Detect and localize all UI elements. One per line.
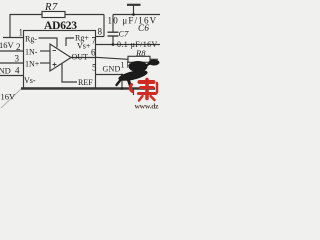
ground (top) stub (133, 5, 135, 15)
capacitor C7 plates (108, 31, 119, 33)
wire: pin 7 Vs+ rail (96, 44, 161, 46)
wire: pin 1 (3, 37, 24, 39)
node: pin5/bottom rail junction (121, 87, 124, 90)
svg-text:R8: R8 (135, 48, 146, 58)
svg-text:4: 4 (15, 66, 20, 76)
node: ground stub on rail (132, 13, 135, 16)
wire: diagonal lead bottom-left (1, 89, 21, 108)
wire: internal Rg- stub (39, 38, 58, 48)
svg-text:GND: GND (103, 65, 121, 74)
svg-text:C7: C7 (119, 29, 130, 39)
svg-text:1N+: 1N+ (25, 60, 40, 69)
svg-text:3: 3 (15, 54, 20, 64)
svg-text:ND: ND (0, 66, 11, 76)
wire: internal Rg+ stub (66, 38, 74, 46)
watermark black brush swoosh (117, 60, 160, 87)
wire: R8 right lead (150, 58, 158, 60)
svg-text:8: 8 (98, 27, 103, 37)
capacitor C7 top lead (112, 15, 114, 32)
wire: pin 5 to ground (96, 75, 123, 89)
svg-text:16V: 16V (1, 92, 17, 102)
svg-text:Vs-: Vs- (24, 76, 36, 85)
svg-text:16V: 16V (0, 40, 15, 50)
resistor R8 body (128, 56, 150, 62)
ground (top) bar (127, 4, 141, 6)
op-amp triangle (50, 44, 71, 71)
svg-text:OUT: OUT (72, 53, 89, 62)
svg-text:www.dz: www.dz (135, 102, 160, 111)
watermark black brim band (117, 68, 148, 83)
plus input mark (53, 63, 57, 67)
svg-text:Rg-: Rg- (25, 35, 37, 44)
wire: pin 8 (96, 36, 105, 38)
svg-text:7: 7 (92, 36, 97, 46)
wire: pin 4 (0, 75, 24, 77)
watermark black crown blob (129, 61, 148, 72)
wire: pin 2 (0, 50, 24, 52)
background (0, 0, 160, 110)
watermark black tassel (127, 76, 131, 86)
svg-text:Vs+: Vs+ (77, 42, 91, 51)
capacitor C7 bottom lead (112, 37, 114, 45)
svg-text:5: 5 (92, 63, 97, 73)
wire: R7 loop right vertical down to pin 8 (103, 15, 105, 37)
wire: pin 6 to R8 (96, 57, 129, 59)
watermark red logo (130, 80, 157, 101)
wire: R7 feedback loop left vertical (9, 15, 11, 38)
svg-text:2: 2 (16, 42, 21, 52)
watermark black tip right (146, 62, 157, 66)
svg-text:C6: C6 (138, 23, 149, 33)
svg-text:1N-: 1N- (25, 48, 38, 57)
minus input mark (53, 50, 57, 52)
node: pin5 corner (121, 74, 123, 76)
svg-text:10 μF/16V: 10 μF/16V (108, 16, 158, 26)
resistor R7 body (42, 12, 65, 18)
op-amp U1 (AD623) package outline (24, 31, 96, 89)
svg-text:1: 1 (19, 28, 24, 38)
bottom ground stub (133, 89, 135, 96)
wire: REF internal branch (62, 64, 77, 83)
wire: top ground rail (113, 14, 160, 16)
wire: top rail right of R7 (65, 14, 104, 16)
wire: internal IN+ stub (40, 62, 50, 64)
svg-text:AD623: AD623 (44, 20, 77, 32)
wire: pin 3 (0, 62, 24, 64)
svg-text:REF: REF (78, 78, 93, 87)
svg-text:R7: R7 (44, 2, 58, 13)
wire: output from apex to OUT pin (71, 57, 96, 59)
wire: top rail left of R7 (10, 14, 43, 16)
bottom ground rail (21, 87, 155, 89)
svg-text:6: 6 (91, 48, 96, 58)
wire: internal IN- stub (40, 50, 50, 52)
node: C7 / Vs+ junction (112, 43, 115, 46)
